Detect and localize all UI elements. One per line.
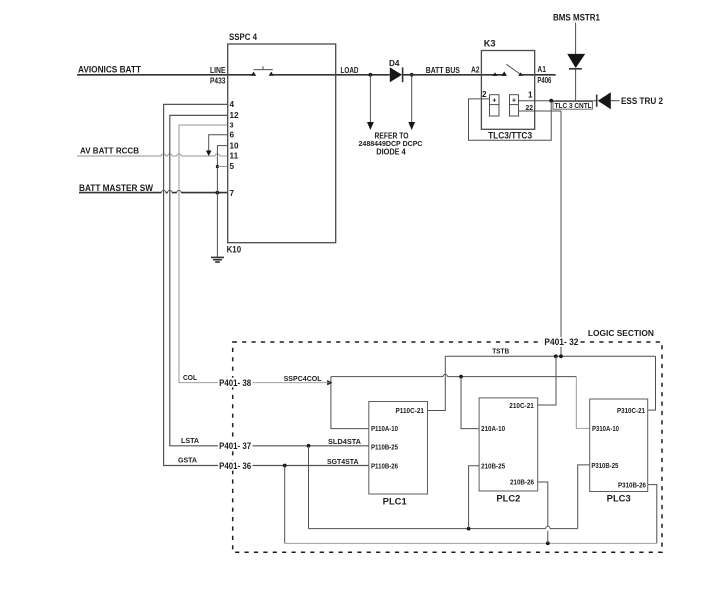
pin 3 [230, 121, 234, 130]
svg-text:210B-25: 210B-25 [481, 461, 505, 470]
svg-text:PLC3: PLC3 [607, 493, 631, 503]
node junction SGT4STA [283, 464, 287, 468]
relay SSPC 4 box [228, 44, 336, 243]
label LSTA [181, 436, 199, 445]
svg-text:1: 1 [528, 91, 533, 100]
wire TSTB to PLC3 P310C-21 [648, 356, 656, 410]
node junction B-25 bus / PLC2 [467, 527, 471, 531]
label K3 [484, 38, 496, 48]
svg-text:P310B-25: P310B-25 [591, 461, 618, 470]
svg-text:LOAD: LOAD [341, 66, 359, 75]
wire PLC3 P310B-26 loop [648, 485, 657, 544]
wire K3 pin22 down to TSTB [560, 111, 562, 356]
pin 7 [230, 189, 235, 198]
pin 1 [528, 91, 533, 100]
svg-text:12: 12 [230, 111, 240, 120]
logic section dashed border [233, 342, 662, 552]
svg-text:A2: A2 [471, 66, 480, 75]
svg-text:K10: K10 [227, 245, 242, 255]
pin 10 [230, 141, 240, 150]
svg-text:6: 6 [230, 131, 235, 140]
node junction TLC3 CNTL [549, 99, 553, 103]
pin LINE [210, 66, 226, 75]
wire to PLC3 P310A-10 [576, 377, 589, 429]
pin 22 [526, 103, 534, 112]
wire LSTA P401-37 to PLC1 P110B-25 [253, 445, 369, 447]
node BATT MASTER SW [79, 183, 153, 193]
pin P310C-21 [617, 406, 645, 415]
svg-text:22: 22 [526, 103, 534, 112]
svg-text:AVIONICS BATT: AVIONICS BATT [78, 65, 141, 75]
svg-text:PLC1: PLC1 [383, 496, 407, 506]
wire BMS MSTR1 down [575, 23, 577, 55]
coil K3 left [490, 95, 500, 116]
label SSPC 4 [229, 32, 258, 42]
pin 11 [230, 151, 239, 160]
svg-text:P401- 37: P401- 37 [219, 441, 251, 451]
svg-text:+: + [492, 95, 496, 104]
wire to PLC2 210A-10 [461, 377, 479, 429]
wire up to PLC2 210B-25 [469, 466, 480, 529]
node P401- 36 [218, 461, 253, 471]
label COL [183, 373, 198, 382]
svg-text:P401- 38: P401- 38 [219, 378, 251, 388]
wire K3 A1 stub [521, 74, 556, 76]
wire SSPC4 LOAD to diode D4 [271, 74, 390, 76]
svg-text:7: 7 [230, 189, 235, 198]
wire SSPC4 pin 10 down to ground [217, 146, 227, 258]
node BMS MSTR1 [553, 13, 600, 23]
svg-text:ESS TRU 2: ESS TRU 2 [621, 96, 663, 106]
svg-text:10: 10 [230, 141, 240, 150]
wire AV BATT RCCB to SSPC4 pin 11 (with crossover hops) [77, 154, 228, 156]
svg-text:5: 5 [230, 162, 235, 171]
svg-text:P110B-26: P110B-26 [371, 462, 398, 471]
pin 210B-26 [510, 478, 534, 487]
pin A2 [471, 66, 480, 75]
pin 4 [230, 100, 235, 109]
wire SSPC4 pin 3 to COL [179, 125, 228, 383]
svg-text:TLC 3 CNTL: TLC 3 CNTL [555, 101, 593, 110]
svg-text:SSPC 4: SSPC 4 [229, 32, 258, 42]
wire drop to REFER TO note right [408, 75, 415, 130]
IC PLC3 box [590, 399, 648, 492]
svg-text:AV BATT RCCB: AV BATT RCCB [80, 147, 139, 156]
node AV BATT RCCB [80, 147, 139, 156]
wire B-25 bus (with hop at 210B-26 vertical) [309, 526, 578, 528]
pin 5 [230, 162, 235, 171]
label PLC1 [383, 496, 407, 506]
wire BMS diode to TLC3 CNTL net [575, 69, 577, 101]
node junction line A / PLC2 [459, 375, 463, 379]
node junction TSTB / 210C-21 [554, 354, 558, 358]
svg-text:COL: COL [183, 373, 198, 382]
node junction pin5 [216, 165, 219, 168]
diode BMS (cathode down) [567, 54, 585, 69]
pin 2 [482, 90, 487, 99]
node AVIONICS BATT [78, 65, 141, 75]
label TSTB [492, 347, 509, 356]
svg-text:LSTA: LSTA [181, 436, 199, 445]
label LOGIC SECTION [586, 328, 656, 338]
pin P110C-21 [396, 406, 425, 415]
svg-text:P110B-25: P110B-25 [371, 443, 398, 452]
diode ESS TRU 2 (pointing left) [597, 92, 620, 109]
svg-text:4: 4 [230, 100, 235, 109]
node junction pin7 / ground branch [216, 191, 220, 195]
wire K3 pin1 to ESS TRU 2 diode [519, 100, 597, 102]
pin A1 [537, 65, 546, 74]
svg-text:D4: D4 [389, 59, 400, 68]
node junction TSTB / P401-32 [559, 354, 563, 358]
wire SSPC4 pin 4 to GSTA [164, 104, 228, 465]
label SLD4STA [328, 437, 361, 446]
label K10 [227, 245, 242, 255]
label TLC3/TTC3 [488, 131, 532, 141]
wire BATT BUS D4 to K3 A2 [403, 74, 505, 76]
pin 210B-25 [481, 461, 505, 470]
svg-text:K3: K3 [484, 38, 496, 48]
node arrow SSPC4COL joins [327, 380, 332, 385]
pin P110B-25 [371, 443, 398, 452]
node P401- 37 [218, 441, 253, 451]
wire AVIONICS BATT to SSPC4 LINE [77, 74, 254, 76]
label PLC3 [607, 493, 631, 503]
pin 210A-10 [481, 424, 505, 433]
label LOAD [341, 66, 359, 75]
wire K3 pin22 right [519, 110, 562, 112]
switch K3 contact [493, 64, 523, 76]
wire COL P401-38 to SSPC4COL [253, 382, 331, 384]
svg-text:TLC3/TTC3: TLC3/TTC3 [488, 131, 532, 141]
svg-text:LINE: LINE [210, 66, 226, 75]
svg-text:2: 2 [482, 90, 487, 99]
svg-text:11: 11 [230, 151, 239, 160]
svg-text:BATT BUS: BATT BUS [426, 66, 460, 75]
svg-text:P310B-26: P310B-26 [618, 480, 646, 489]
svg-text:3: 3 [230, 121, 234, 130]
note REFER TO 2488449DCP DCPC DIODE 4 [359, 131, 423, 156]
node ESS TRU 2 [621, 96, 663, 106]
svg-text:SSPC4COL: SSPC4COL [284, 374, 323, 383]
pin P310B-26 [618, 480, 646, 489]
pin 210C-21 [509, 401, 534, 410]
pin P310B-25 [591, 461, 618, 470]
svg-text:SGT4STA: SGT4STA [327, 457, 359, 466]
wire SLD4STA down to B-25 bus [308, 446, 310, 529]
pin 12 [230, 111, 240, 120]
wire drop to REFER TO note left [367, 75, 374, 130]
node P401- 38 [218, 378, 253, 388]
svg-text:PLC2: PLC2 [496, 493, 520, 503]
svg-text:P110C-21: P110C-21 [396, 406, 425, 415]
pin P406 [537, 76, 551, 85]
pin P310A-10 [592, 424, 619, 433]
pin P433 [210, 76, 226, 85]
node P401- 32 [543, 337, 580, 347]
wire K3 pin2 loop left-bottom [469, 99, 552, 140]
svg-text:A1: A1 [537, 65, 546, 74]
svg-text:P433: P433 [210, 76, 226, 85]
diode D4 [390, 67, 403, 82]
wire SGT4STA down to B-26 bus [284, 466, 286, 544]
pin P110B-26 [371, 462, 398, 471]
IC PLC1 box [369, 402, 428, 495]
node junction B-26 bus / PLC2 [546, 541, 550, 545]
switch SSPC4 contact [251, 66, 274, 76]
wire PLC2 210C-21 up to TSTB [538, 356, 556, 405]
wire up to PLC3 P310B-25 [578, 465, 590, 529]
wire BATT MASTER SW to SSPC4 pin 7 (with crossover hops) [79, 190, 228, 192]
label PLC2 [496, 493, 520, 503]
wire TSTB to PLC1 P110C-21 [428, 356, 446, 410]
IC PLC2 box [479, 398, 538, 491]
svg-text:210B-26: 210B-26 [510, 478, 534, 487]
svg-text:P310C-21: P310C-21 [617, 406, 645, 415]
pin 6 [230, 131, 235, 140]
svg-text:TSTB: TSTB [492, 347, 509, 356]
svg-text:BATT MASTER SW: BATT MASTER SW [79, 183, 153, 193]
relay K3 box [481, 51, 534, 130]
label GSTA [178, 456, 197, 465]
wire B-26 bus [285, 542, 657, 544]
svg-text:P110A-10: P110A-10 [371, 424, 398, 433]
wire SSPC4 pin 6 down-arrow to pin 11 line [206, 135, 228, 156]
node junction SLD4STA [307, 444, 311, 448]
svg-text:P310A-10: P310A-10 [592, 424, 619, 433]
node LOAD junction 2 [410, 73, 414, 77]
wire SSPC4COL vertical to PLC1 P110A-10 [331, 377, 369, 429]
svg-text:P406: P406 [537, 76, 551, 85]
ground K10 [211, 257, 224, 262]
label BATT BUS [426, 66, 460, 75]
label SSPC4COL [284, 374, 323, 383]
svg-text:GSTA: GSTA [178, 456, 197, 465]
svg-text:DIODE 4: DIODE 4 [376, 148, 406, 157]
coil K3 right [510, 95, 519, 116]
svg-text:P401- 36: P401- 36 [219, 461, 251, 471]
pin P110A-10 [371, 424, 398, 433]
wire PLC2 210B-26 down [538, 482, 548, 543]
svg-text:P401- 32: P401- 32 [544, 337, 578, 347]
wire SSPC4COL line A bus [331, 374, 576, 376]
wire GSTA P401-36 to PLC1 P110B-26 [253, 465, 369, 467]
node TLC 3 CNTL boxed label [553, 101, 592, 110]
wire TSTB bus [445, 355, 655, 357]
label SGT4STA [327, 457, 359, 466]
svg-text:BMS MSTR1: BMS MSTR1 [553, 13, 600, 23]
wire SSPC4 pin 5 [217, 166, 227, 168]
svg-text:LOGIC SECTION: LOGIC SECTION [588, 329, 654, 338]
svg-text:+: + [512, 95, 516, 104]
wire SSPC4 pin 12 to LSTA [170, 115, 228, 445]
svg-text:210A-10: 210A-10 [481, 424, 505, 433]
svg-text:210C-21: 210C-21 [509, 401, 534, 410]
node LOAD junction 1 [369, 73, 373, 77]
svg-text:SLD4STA: SLD4STA [328, 437, 361, 446]
label D4 [389, 59, 400, 68]
